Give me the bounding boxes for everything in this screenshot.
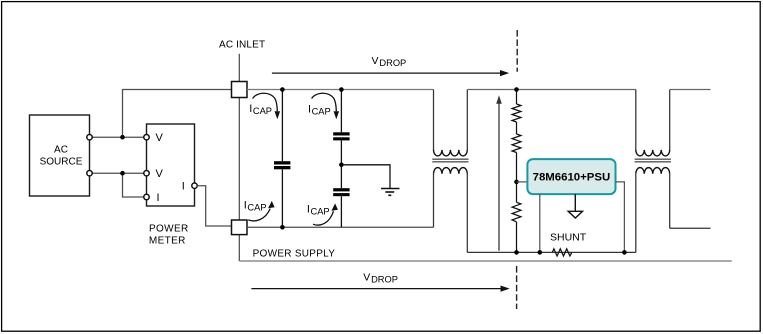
AC inlet connector bottom: [232, 220, 248, 235]
AC inlet connector top: [232, 82, 248, 98]
wire U1 bottom-left pin: [539, 194, 541, 252]
wire node D to U1: [517, 181, 528, 183]
svg-text:V: V: [156, 168, 164, 180]
junction node C2-C3 midpoint: [339, 163, 344, 168]
svg-text:V: V: [363, 272, 370, 284]
wire below bottom inlet connector: [238, 235, 240, 261]
svg-text:I: I: [182, 181, 185, 193]
signal ground triangle: [568, 211, 582, 218]
T1 core: [432, 158, 468, 160]
power supply long return wire: [239, 260, 732, 262]
arrow ICAP 3: [248, 201, 274, 221]
T1 bottom winding: [434, 168, 468, 174]
svg-text:I: I: [308, 104, 311, 116]
power meter terminal I left: [144, 194, 149, 199]
wire U1 right pin: [616, 182, 625, 253]
T2 top winding left lead: [635, 90, 637, 151]
AC source terminal top: [87, 135, 92, 140]
svg-text:CAP: CAP: [247, 203, 266, 213]
IC U1 78M6610+PSU: [527, 159, 615, 194]
wire R2 to node D: [516, 153, 518, 203]
junction C1 top: [280, 87, 285, 92]
power meter box: [147, 124, 195, 206]
arrow ICAP 4: [313, 203, 338, 225]
resistor R3: [512, 202, 521, 222]
junction shunt left: [538, 250, 543, 255]
wire AC source bottom to meter V2: [90, 172, 147, 174]
svg-text:CAP: CAP: [253, 106, 272, 116]
svg-text:CAP: CAP: [311, 206, 330, 216]
svg-text:POWER: POWER: [149, 223, 189, 234]
svg-text:CAP: CAP: [312, 107, 331, 117]
arrow bus voltage up: [496, 95, 502, 251]
wire line conductor top: [247, 89, 434, 91]
wire R1-R2: [516, 122, 518, 134]
wire secondary bottom stub: [670, 227, 711, 229]
resistor R2: [512, 134, 521, 153]
wire loop bottom: [467, 251, 636, 253]
resistor shunt: [552, 249, 572, 256]
AC source terminal bottom: [87, 171, 92, 176]
wire loop top: [467, 89, 636, 91]
junction C2 top: [339, 87, 344, 92]
VDROP bottom label: [363, 272, 398, 285]
ground: [381, 189, 400, 196]
power meter terminal V1: [144, 135, 149, 140]
T2 core: [635, 158, 671, 160]
T2 bottom winding left lead: [635, 174, 637, 253]
wire to ground: [341, 165, 390, 189]
svg-text:AC INLET: AC INLET: [219, 39, 265, 50]
power meter terminal I right: [192, 183, 197, 188]
wire between inlet connectors: [238, 98, 240, 221]
wire neutral conductor bottom: [247, 226, 434, 228]
power meter terminal V2: [144, 171, 149, 176]
wire node B down to meter I terminal: [123, 173, 147, 197]
svg-text:I: I: [249, 103, 252, 115]
svg-text:78M6610+PSU: 78M6610+PSU: [533, 171, 611, 183]
svg-text:I: I: [244, 200, 247, 212]
capacitor C3: [333, 188, 349, 227]
wire R3 to bottom: [516, 222, 518, 253]
T2 top winding: [636, 150, 670, 156]
choke T1: [432, 90, 468, 253]
svg-text:DROP: DROP: [371, 275, 398, 285]
svg-text:V: V: [372, 55, 379, 67]
T1 bottom winding left lead: [433, 174, 435, 228]
junction C1 bottom: [280, 225, 285, 230]
dashed boundary top: [516, 30, 518, 72]
junction node D: [514, 180, 519, 185]
junction shunt right: [622, 250, 627, 255]
T1 bottom winding right lead: [466, 174, 468, 253]
svg-text:METER: METER: [149, 236, 186, 247]
T1 top winding left lead: [433, 90, 435, 151]
wire node A up to AC inlet line: [123, 90, 232, 138]
svg-text:SHUNT: SHUNT: [550, 232, 587, 244]
junction resistor bottom: [514, 250, 519, 255]
arrow ICAP 2: [312, 93, 340, 119]
svg-text:POWER SUPPLY: POWER SUPPLY: [253, 248, 336, 259]
T2 bottom winding right lead: [669, 174, 671, 229]
AC source box: [30, 115, 90, 196]
wire AC inlet stem: [238, 54, 240, 82]
T1 top winding: [434, 150, 468, 156]
VDROP top arrow: [272, 70, 509, 76]
VDROP top label: [372, 55, 407, 68]
label ICAP 4: [307, 203, 330, 216]
svg-text:AC: AC: [54, 145, 68, 156]
T2 top winding right lead: [669, 90, 671, 151]
label ICAP 3: [244, 200, 267, 213]
svg-text:I: I: [157, 192, 160, 204]
arrow ICAP 1: [253, 93, 281, 119]
svg-text:V: V: [156, 132, 164, 144]
junction node B: [120, 171, 125, 176]
T2 bottom winding: [636, 168, 670, 174]
wire AC source top to meter V1: [90, 136, 147, 138]
svg-text:SOURCE: SOURCE: [40, 156, 83, 167]
wire meter I terminal to bottom inlet connector: [197, 186, 231, 226]
svg-text:DROP: DROP: [379, 58, 406, 68]
wire U1 agnd pin: [574, 194, 576, 211]
junction resistor top: [514, 87, 519, 92]
capacitor C1: [274, 90, 290, 228]
resistor R1: [512, 90, 521, 123]
svg-text:I: I: [307, 203, 310, 215]
VDROP bottom arrow: [251, 286, 509, 292]
label ICAP 1: [249, 103, 272, 116]
wire secondary top stub: [670, 89, 711, 91]
label ICAP 2: [308, 104, 331, 117]
choke T2: [635, 90, 671, 253]
dashed boundary bottom: [516, 266, 518, 309]
capacitor C2: [333, 90, 349, 189]
junction node A: [120, 135, 125, 140]
T1 top winding right lead: [466, 90, 468, 151]
